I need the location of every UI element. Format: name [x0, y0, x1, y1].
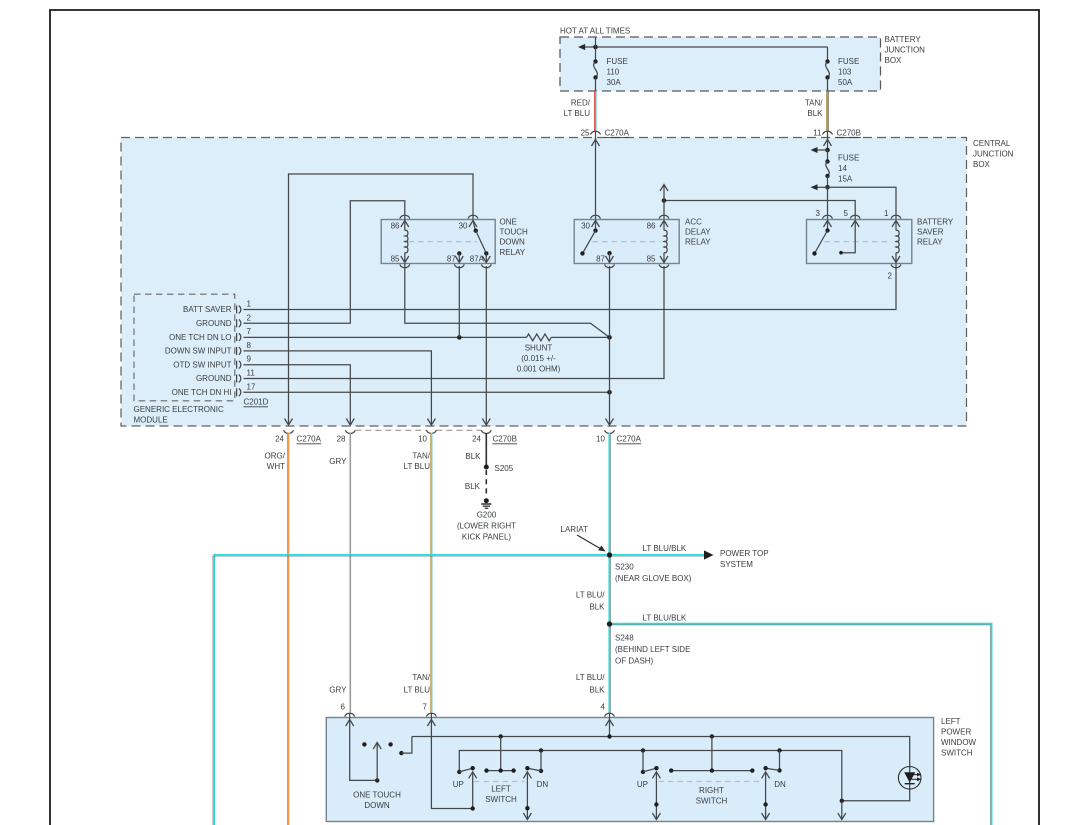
K2 pin 86	[647, 215, 669, 230]
connector C270B pin 11	[813, 129, 861, 138]
splice S248	[607, 621, 691, 665]
splice S230	[607, 552, 692, 583]
left switch mech link	[474, 781, 525, 783]
svg-text:BLK: BLK	[589, 603, 605, 612]
svg-text:MODULE: MODULE	[134, 416, 168, 425]
svg-text:(0.015 +/-: (0.015 +/-	[521, 354, 556, 363]
svg-text:C270A: C270A	[297, 435, 322, 444]
wire ACC86 down	[663, 201, 665, 220]
wire row17 ONE TCH DN HI	[244, 391, 610, 393]
battery junction box	[560, 35, 925, 91]
svg-text:RELAY: RELAY	[500, 248, 526, 257]
svg-text:LT BLU: LT BLU	[404, 462, 431, 471]
svg-text:LT BLU: LT BLU	[404, 686, 431, 695]
svg-text:S248: S248	[615, 634, 634, 643]
wire bus2 exit	[838, 801, 846, 820]
K3 pin 5	[839, 209, 860, 255]
left power window switch box	[326, 717, 976, 822]
wire row8 DOWN SW INPUT	[244, 351, 432, 424]
svg-text:87: 87	[596, 255, 605, 264]
K1 coil	[405, 230, 408, 253]
wire K2 pin87 LT BLU/BLK down	[609, 266, 611, 424]
svg-text:(NEAR GLOVE BOX): (NEAR GLOVE BOX)	[615, 574, 692, 583]
K1 pin 87	[447, 251, 464, 268]
K3 coil	[896, 230, 899, 253]
svg-text:POWER TOP: POWER TOP	[720, 549, 769, 558]
node row17 junction	[607, 390, 612, 395]
svg-text:11: 11	[247, 369, 256, 378]
svg-text:S205: S205	[495, 464, 514, 473]
svg-text:DOWN SW INPUT: DOWN SW INPUT	[165, 347, 232, 356]
svg-text:(BEHIND LEFT SIDE: (BEHIND LEFT SIDE	[615, 645, 690, 654]
node K1 pin87 junction	[457, 266, 462, 340]
svg-text:DN: DN	[774, 780, 786, 789]
switch pin 6	[341, 703, 378, 781]
wire shunt to node	[551, 336, 609, 338]
svg-text:WINDOW: WINDOW	[941, 738, 977, 747]
GEM pin 1 BATT SAVER	[183, 300, 251, 315]
label TAN/LT BLU lower	[404, 673, 431, 695]
wire K1 pin85 branch	[405, 264, 610, 338]
svg-text:7: 7	[423, 703, 428, 712]
svg-text:1: 1	[247, 300, 252, 309]
svg-text:UP: UP	[637, 780, 648, 789]
node S230 junction dot	[607, 552, 612, 557]
GEM pin 11 GROUND	[196, 369, 255, 384]
svg-text:ONE TCH DN LO: ONE TCH DN LO	[169, 333, 232, 342]
svg-text:10: 10	[418, 435, 427, 444]
svg-text:1: 1	[884, 209, 889, 218]
exit arrow pin24 C270B	[472, 419, 517, 444]
svg-text:UP: UP	[453, 780, 464, 789]
svg-text:5: 5	[844, 209, 849, 218]
right switch center contacts	[669, 737, 755, 773]
svg-text:C270B: C270B	[493, 435, 517, 444]
svg-text:14: 14	[838, 164, 847, 173]
svg-text:C270A: C270A	[605, 129, 630, 138]
svg-text:BATTERY: BATTERY	[917, 217, 954, 226]
exit arrow pin28	[337, 419, 356, 444]
svg-text:JUNCTION: JUNCTION	[973, 150, 1014, 159]
svg-text:SHUNT: SHUNT	[525, 344, 553, 353]
svg-text:BLK: BLK	[807, 109, 823, 118]
left switch center contacts	[484, 737, 516, 773]
K3 pin 2	[888, 253, 901, 281]
wire LT BLU/BLK S230 left branch	[213, 555, 610, 825]
K2 coil	[664, 230, 667, 253]
wire BLK dashed to G200	[465, 470, 486, 497]
svg-text:24: 24	[275, 435, 284, 444]
svg-text:24: 24	[472, 435, 481, 444]
svg-text:GENERIC ELECTRONIC: GENERIC ELECTRONIC	[134, 405, 224, 414]
wire LT BLU/BLK S230 to power top system	[610, 544, 769, 569]
wire bus2	[459, 748, 844, 803]
K2 pin 30	[581, 215, 600, 230]
label left switch	[485, 785, 517, 805]
relay K1 one touch down relay	[381, 217, 528, 263]
central junction box	[121, 138, 1014, 427]
svg-text:85: 85	[647, 255, 656, 264]
svg-text:110: 110	[607, 68, 620, 77]
svg-text:DN: DN	[537, 780, 549, 789]
svg-text:8: 8	[247, 341, 252, 350]
K3 pin 3	[816, 209, 833, 231]
wire pin11 entry	[824, 131, 832, 150]
node fuse14 bottom branch arrow	[811, 184, 830, 190]
K1 pin 85	[391, 253, 410, 268]
svg-text:86: 86	[647, 222, 656, 231]
right switch mech link	[659, 781, 763, 783]
connector C270A pin 25	[581, 129, 630, 138]
svg-text:RELAY: RELAY	[917, 238, 943, 247]
wire LT BLU/BLK S248 to switch pin4	[576, 624, 611, 713]
K2 switch arm	[580, 228, 597, 255]
svg-text:ORG/: ORG/	[265, 452, 286, 461]
label right switch	[696, 786, 728, 806]
svg-text:SAVER: SAVER	[917, 228, 944, 237]
svg-text:2: 2	[247, 313, 252, 322]
K1 switch arm	[474, 229, 489, 256]
wire GRY	[329, 433, 350, 713]
svg-text:LT BLU/BLK: LT BLU/BLK	[643, 544, 687, 553]
svg-text:ONE TOUCH: ONE TOUCH	[353, 791, 401, 800]
wire row1 BATT SAVER to BSR pin2	[244, 264, 897, 310]
svg-text:9: 9	[247, 355, 252, 364]
wire K1 pin30 feed	[289, 174, 474, 424]
svg-text:17: 17	[247, 382, 256, 391]
svg-text:DOWN: DOWN	[500, 238, 526, 247]
wire row9 OTD SW INPUT	[244, 365, 351, 424]
exit arrow pin24 C270A	[275, 419, 322, 444]
svg-text:KICK PANEL): KICK PANEL)	[462, 533, 512, 542]
svg-text:S230: S230	[615, 563, 634, 572]
svg-text:OF DASH): OF DASH)	[615, 657, 654, 666]
K1 pin 30	[459, 215, 478, 230]
wire row11 GROUND to K2 pin85	[244, 266, 665, 379]
left switch DN contact	[523, 751, 548, 820]
svg-text:HOT AT ALL TIMES: HOT AT ALL TIMES	[560, 27, 630, 36]
svg-text:TOUCH: TOUCH	[500, 228, 529, 237]
svg-text:LEFT: LEFT	[941, 717, 961, 726]
svg-text:11: 11	[813, 129, 822, 138]
svg-text:LT BLU: LT BLU	[564, 109, 591, 118]
svg-text:SWITCH: SWITCH	[485, 795, 517, 804]
svg-text:LT BLU/BLK: LT BLU/BLK	[643, 614, 687, 623]
svg-text:86: 86	[391, 222, 400, 231]
svg-text:RELAY: RELAY	[685, 238, 711, 247]
wire hot feed bus	[578, 44, 828, 50]
svg-text:TAN/: TAN/	[412, 673, 430, 682]
svg-text:BOX: BOX	[885, 56, 903, 65]
svg-text:7: 7	[247, 327, 252, 336]
connector bracket dashes	[355, 429, 481, 431]
wire fuse14 to BSR pin1	[828, 187, 897, 219]
relay K3 battery saver relay	[807, 217, 954, 263]
svg-text:30: 30	[459, 222, 468, 231]
svg-text:87A: 87A	[470, 255, 485, 264]
svg-text:LT BLU/: LT BLU/	[576, 673, 605, 682]
svg-text:LARIAT: LARIAT	[561, 525, 589, 534]
svg-text:4: 4	[601, 703, 606, 712]
svg-text:C270A: C270A	[617, 435, 642, 444]
fuse 103 50A	[825, 47, 859, 91]
svg-text:GROUND: GROUND	[196, 374, 232, 383]
GEM pin 9 OTD SW INPUT	[173, 355, 251, 370]
svg-text:10: 10	[596, 435, 605, 444]
GEM pin 8 DOWN SW INPUT	[165, 341, 252, 356]
relay K2 acc delay relay	[574, 217, 711, 263]
wire feed bus1	[412, 734, 910, 801]
svg-text:G200: G200	[477, 511, 497, 520]
K1 pin 86	[391, 215, 410, 230]
svg-text:103: 103	[838, 68, 852, 77]
fuse 110 30A	[593, 37, 628, 91]
ground G200	[457, 498, 516, 541]
GEM pin 17 ONE TCH DN HI	[172, 382, 256, 397]
svg-text:TAN/: TAN/	[412, 452, 430, 461]
svg-text:FUSE: FUSE	[838, 57, 859, 66]
right switch UP contact	[637, 751, 661, 820]
svg-text:BATTERY: BATTERY	[885, 35, 922, 44]
K3 switch arm	[812, 228, 829, 255]
fuse 14 15A	[825, 150, 859, 187]
svg-text:POWER: POWER	[941, 728, 971, 737]
svg-text:GRY: GRY	[329, 686, 347, 695]
K2 pin 87	[596, 251, 614, 268]
wire LT BLU/BLK S230 to S248	[576, 555, 611, 624]
svg-text:BLK: BLK	[465, 452, 481, 461]
svg-text:SYSTEM: SYSTEM	[720, 560, 753, 569]
K1 pin 87A	[470, 253, 492, 267]
svg-text:6: 6	[341, 703, 346, 712]
svg-text:BLK: BLK	[465, 482, 481, 491]
svg-text:SWITCH: SWITCH	[941, 749, 973, 758]
svg-text:FUSE: FUSE	[838, 154, 859, 163]
node fuse14 top branch arrow	[811, 147, 830, 153]
svg-text:LEFT: LEFT	[491, 785, 511, 794]
svg-text:ONE TCH DN HI: ONE TCH DN HI	[172, 388, 232, 397]
splice S205	[484, 464, 514, 473]
switch pin 7	[423, 703, 473, 809]
svg-text:87: 87	[447, 255, 456, 264]
node shunt junction	[607, 335, 612, 340]
wire LT BLU/BLK S248 right branch	[610, 614, 992, 825]
wire TAN/LT BLU	[404, 433, 432, 713]
svg-text:OTD SW INPUT: OTD SW INPUT	[173, 360, 231, 369]
svg-text:JUNCTION: JUNCTION	[885, 46, 926, 55]
svg-text:30A: 30A	[607, 78, 622, 87]
svg-text:FUSE: FUSE	[607, 57, 628, 66]
wire ORG/WHT	[265, 433, 290, 825]
label LARIAT	[561, 525, 606, 552]
svg-text:LT BLU/: LT BLU/	[576, 591, 605, 600]
wire K1 pin87A to C270B	[485, 266, 487, 424]
svg-text:SWITCH: SWITCH	[696, 797, 728, 806]
K2 pin 85	[647, 253, 669, 268]
svg-text:WHT: WHT	[267, 462, 285, 471]
svg-text:2: 2	[888, 272, 893, 281]
svg-text:GROUND: GROUND	[196, 319, 232, 328]
left switch UP contact	[453, 766, 477, 811]
wire RED/LT BLU	[564, 91, 597, 131]
svg-text:50A: 50A	[838, 78, 853, 87]
node S248 junction dot	[607, 621, 612, 626]
svg-text:30: 30	[581, 222, 590, 231]
wire TAN/BLK	[805, 91, 828, 131]
svg-text:25: 25	[581, 129, 590, 138]
svg-text:BATT SAVER: BATT SAVER	[183, 305, 232, 314]
wire fuse14 to BSR pin3	[827, 187, 829, 219]
switch pin 4	[601, 703, 615, 737]
resistor shunt	[517, 334, 561, 374]
exit arrow pin10 C270A	[596, 419, 642, 444]
svg-text:GRY: GRY	[329, 457, 347, 466]
generic electronic module box	[134, 294, 269, 424]
svg-text:C201D: C201D	[244, 398, 269, 407]
svg-text:3: 3	[816, 209, 821, 218]
svg-text:0.001 OHM): 0.001 OHM)	[517, 365, 561, 374]
svg-text:ONE: ONE	[500, 217, 517, 226]
svg-text:RIGHT: RIGHT	[699, 786, 724, 795]
GEM pin 7 ONE TCH DN LO	[169, 327, 252, 342]
K3 pin 1	[884, 209, 901, 230]
svg-text:BOX: BOX	[973, 160, 991, 169]
wire row7 ONE TCH DN LO	[244, 336, 527, 338]
wire ACC86 node to BSR pin5	[660, 185, 855, 220]
svg-text:CENTRAL: CENTRAL	[973, 139, 1011, 148]
svg-text:BLK: BLK	[589, 686, 605, 695]
svg-text:DOWN: DOWN	[364, 801, 390, 810]
wire pin25 to ACC relay pin30	[592, 131, 600, 220]
svg-text:C270B: C270B	[837, 129, 861, 138]
wire BLK to S205	[465, 433, 486, 467]
exit arrow pin10	[418, 419, 436, 444]
svg-text:15A: 15A	[838, 175, 853, 184]
svg-text:DELAY: DELAY	[685, 228, 711, 237]
svg-text:28: 28	[337, 435, 346, 444]
wire LT BLU/BLK C270A to S230	[609, 433, 610, 555]
right switch DN contact	[762, 751, 786, 820]
svg-text:ACC: ACC	[685, 217, 702, 226]
GEM pin 2 GROUND	[196, 313, 252, 328]
svg-text:RED/: RED/	[571, 99, 591, 108]
one touch down switch	[353, 737, 412, 811]
svg-text:85: 85	[391, 255, 400, 264]
svg-text:(LOWER RIGHT: (LOWER RIGHT	[457, 522, 516, 531]
LED illumination lamp	[898, 767, 921, 790]
wire row2 GROUND to K1 pin86	[244, 201, 405, 324]
svg-text:TAN/: TAN/	[805, 99, 823, 108]
